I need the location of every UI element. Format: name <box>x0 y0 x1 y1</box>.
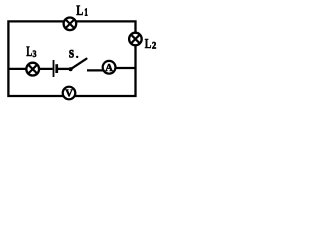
svg-text:L: L <box>76 3 83 19</box>
svg-text:L: L <box>26 44 32 60</box>
svg-text:V: V <box>65 89 73 100</box>
svg-text:L: L <box>145 37 152 52</box>
svg-text:3: 3 <box>33 49 37 59</box>
svg-text:S: S <box>69 49 74 61</box>
svg-text:A: A <box>105 63 113 74</box>
svg-text:2: 2 <box>152 41 157 51</box>
svg-text:1: 1 <box>85 8 88 19</box>
